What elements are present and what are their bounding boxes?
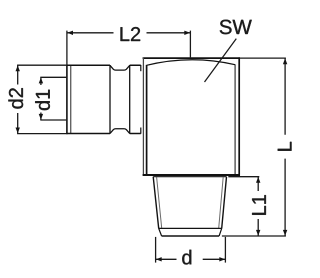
hose nozzle left end face [66,65,68,135]
dimension L2 left extension line [66,31,68,65]
ring right edge upper segment [140,65,142,71]
thread end chamfer left diagonal [159,228,162,236]
body left inner hex corner line [146,65,148,175]
dimension L2 line [67,32,190,34]
dimension d1 line [40,77,42,120]
hose nozzle bottom edge [66,133,141,135]
dimension L top arrow [283,58,287,64]
label L2 [121,27,141,41]
body right outer edge [238,57,240,175]
thread bottom end face [162,235,220,237]
label d1 (rotated) [35,90,50,110]
groove right vertical / ring left edge [129,65,131,134]
groove top dip curve [110,65,130,70]
body top crown chamfer arc [147,60,236,66]
dimension d left extension line [155,237,157,263]
thread chamfer start line [159,227,222,229]
body left outer edge [142,57,144,175]
body right inner hex corner line [234,64,236,174]
label d [182,250,191,265]
dimension L bottom arrow [283,230,287,236]
dimension d left arrow [156,257,162,261]
dimension L1 line [257,177,259,236]
dimension L2 right arrow [184,31,190,35]
dimension L line [284,58,286,236]
dimension L2 left arrow [67,31,73,35]
label SW [220,20,252,35]
hose nozzle end face chamfer line [70,66,72,133]
dimension d2 bottom arrow [16,128,20,134]
shared bottom extension line (thread end face continued) [222,235,286,237]
dimension L top extension line (body top edge continued) [240,57,286,59]
body bottom edge [143,174,240,176]
dimension L1 top arrow [256,177,260,183]
dimension d1 top extension line [40,76,66,78]
thread right root line [219,177,224,228]
thread end chamfer right diagonal [219,228,222,236]
dimension d2 top extension line [17,64,66,66]
dimension L2 right extension line (body axis) [189,31,191,58]
dimension d2 bottom extension line [17,133,66,135]
dimension d1 bottom extension line [40,119,66,121]
label L1 (rotated) [252,195,266,215]
dimension d1 top arrow [39,78,43,84]
dimension d1 bottom arrow [39,114,43,120]
dimension d right extension line [224,237,226,263]
label L (rotated) [278,142,292,151]
thread left root line [157,177,162,228]
dimension d2 top arrow [16,65,20,71]
groove left vertical [109,65,111,134]
groove bottom bump curve [110,129,130,134]
thread top edge [153,176,226,178]
dimension d2 line [17,65,19,133]
thread right outer taper edge [222,177,227,229]
ring right edge lower segment [140,128,142,134]
dimension d right arrow [219,257,225,261]
body top edge [143,57,240,59]
label d2 (rotated) [8,88,23,108]
dimension L1 top extension line (thread top continued) [228,176,259,178]
dimension L1 bottom arrow [256,230,260,236]
SW leader line [205,39,237,82]
dimension d line [156,258,226,260]
hose nozzle top edge [66,64,141,66]
thread left outer taper edge [153,177,159,229]
